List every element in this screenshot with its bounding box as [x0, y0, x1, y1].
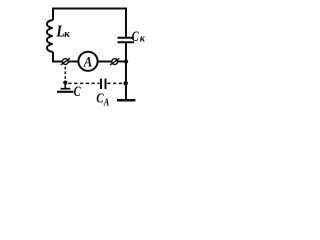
- svg-text:к: к: [64, 28, 70, 40]
- svg-text:C: C: [132, 29, 139, 45]
- svg-text:к: к: [140, 34, 146, 45]
- svg-text:A: A: [83, 54, 93, 70]
- svg-text:C: C: [74, 84, 82, 100]
- svg-text:A: A: [103, 98, 109, 109]
